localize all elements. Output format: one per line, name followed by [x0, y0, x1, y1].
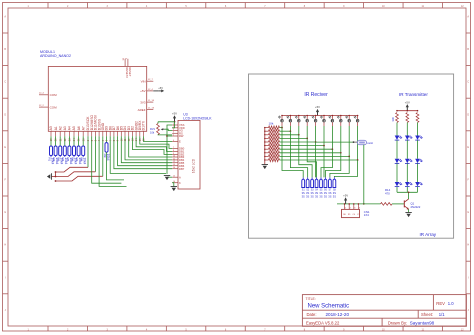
photodiode IR receiver 10 — [354, 116, 359, 127]
pin D11/MOSI bottom — [94, 115, 98, 141]
pin RS of U3 — [172, 131, 183, 135]
wire tx column 3 segment 2 — [417, 140, 419, 159]
ground below Q1 — [405, 213, 411, 218]
wire Q1 collector — [408, 192, 410, 199]
wire R14 to Q1 base — [392, 203, 404, 205]
pin D0/RX bottom — [138, 120, 142, 141]
pin DB0 of U3 — [172, 147, 185, 151]
pin D4 bottom — [123, 126, 127, 141]
resistor R5 — [66, 146, 73, 165]
wire oval to crossbar row — [316, 141, 354, 143]
node receiver junction 8 — [340, 152, 342, 154]
svg-text:7: 7 — [264, 5, 266, 8]
photodiode IR receiver 7 — [329, 116, 334, 127]
node bus dot 5 — [315, 115, 317, 117]
wire Q1 emitter to ground — [408, 209, 410, 212]
pin DB5 of U3 — [172, 161, 185, 165]
node receiver junction 4 — [306, 138, 308, 140]
wire receiver resistor left rail — [264, 128, 266, 163]
wire receiver column 10 — [357, 126, 359, 160]
wire tx column 3 segment 3 — [417, 163, 419, 182]
wire funnel 9 — [330, 156, 349, 177]
svg-text:3S: 3S — [311, 194, 314, 198]
wire receiver column 2 — [289, 126, 291, 131]
svg-text:DB7: DB7 — [179, 167, 185, 171]
part U3 body — [178, 120, 200, 189]
wire receiver row 10 — [280, 159, 358, 161]
resistor receiver pullup 6 — [265, 144, 280, 147]
svg-text:2: 2 — [67, 5, 69, 8]
pin D13/SCK bottom — [86, 116, 90, 141]
resistor receiver pullup 1 — [265, 126, 280, 129]
svg-text:10k: 10k — [269, 121, 274, 125]
svg-text:25: 25 — [78, 138, 81, 141]
svg-text:3S: 3S — [311, 191, 314, 195]
node rail dot — [264, 145, 265, 146]
svg-text:J: J — [5, 309, 7, 312]
pin A of U3 — [172, 175, 181, 179]
node CN bus junction — [363, 203, 365, 205]
IR sensor output part 6 — [324, 177, 328, 198]
photodiode IR receiver 2 — [287, 116, 292, 127]
pin COM 2 left — [39, 105, 57, 110]
pin VDD of U3 — [172, 126, 185, 130]
svg-text:3S: 3S — [328, 194, 331, 198]
node receiver junction 2 — [290, 130, 292, 132]
svg-text:IR Array: IR Array — [420, 232, 437, 237]
photodiode IR receiver 6 — [320, 116, 325, 127]
svg-text:10: 10 — [120, 138, 123, 141]
wire +5V bus transmitter — [397, 110, 418, 112]
wire tx column 2 segment 3 — [406, 163, 408, 182]
pin DB7 of U3 — [172, 167, 185, 171]
pin COM 1 left — [39, 93, 57, 98]
svg-text:RESET: RESET — [128, 67, 132, 76]
svg-text:24: 24 — [73, 138, 76, 141]
svg-text:2: 2 — [91, 139, 94, 141]
svg-text:12: 12 — [128, 138, 131, 141]
pin A3 bottom — [63, 126, 67, 141]
photodiode IR receiver 9 — [345, 116, 350, 127]
svg-text:ARDUINO_NANO2: ARDUINO_NANO2 — [40, 54, 71, 58]
wire A5 to R6 — [73, 136, 75, 146]
svg-text:A: A — [467, 16, 469, 19]
svg-text:4: 4 — [146, 5, 148, 8]
ground below LCD — [171, 187, 177, 192]
svg-text:3S: 3S — [333, 191, 336, 195]
svg-text:IR Reciver: IR Reciver — [304, 92, 328, 98]
wire tx column 2 segment 1 — [406, 123, 408, 136]
svg-text:3S: 3S — [315, 191, 318, 195]
svg-text:A: A — [179, 175, 181, 179]
wire oval down to CN1 bus — [363, 145, 365, 204]
wire A7 to R8 — [82, 136, 84, 146]
node rail dot — [264, 156, 265, 157]
svg-text:12: 12 — [461, 5, 464, 8]
title block REV — [436, 301, 454, 306]
svg-text:23: 23 — [69, 138, 72, 141]
pin K of U3 — [172, 181, 181, 185]
node rail dot — [264, 159, 265, 160]
wire D7 to LCD DB7 — [114, 136, 172, 168]
node rail dot — [264, 141, 265, 142]
wire D4 to LCD DB4 — [125, 136, 172, 160]
wire pot wiper to VO — [164, 129, 172, 130]
pin A7 bottom — [81, 126, 85, 141]
svg-text:10: 10 — [173, 155, 175, 157]
node receiver junction 5 — [315, 141, 317, 143]
wire VSS to ground rail — [167, 125, 172, 174]
wire tx column 3 segment 1 — [417, 123, 419, 136]
wire GND2 to LCD DB1 — [136, 136, 172, 151]
wire funnel 7 — [321, 149, 332, 177]
svg-text:330: 330 — [391, 117, 395, 122]
pin D6 bottom — [116, 126, 120, 141]
svg-text:REV: REV — [436, 301, 445, 306]
pin VSS of U3 — [172, 123, 184, 127]
svg-text:11: 11 — [173, 158, 175, 160]
resistor tx 1 — [396, 113, 399, 123]
pin 1 of CN1 — [344, 203, 346, 210]
wire +5V to VDD — [172, 122, 174, 128]
svg-text:A7: A7 — [81, 126, 85, 130]
resistor R14 — [381, 203, 393, 206]
svg-text:A3: A3 — [63, 126, 67, 130]
label Q1 2N2222 — [411, 201, 421, 208]
node bus dot 9 — [348, 115, 350, 117]
resistor R8 — [80, 146, 87, 165]
pin AREF right — [138, 108, 155, 112]
svg-text:C0: C0 — [353, 214, 356, 216]
svg-text:J2_7: J2_7 — [148, 79, 154, 81]
svg-text:16: 16 — [143, 138, 146, 141]
wire receiver column 7 — [331, 126, 333, 149]
wire receiver column 6 — [323, 126, 325, 146]
svg-text:3S: 3S — [319, 191, 322, 195]
resistor receiver pullup 5 — [265, 140, 280, 143]
IR sensor output part 3 — [311, 177, 315, 198]
wire receiver column 5 — [315, 126, 317, 142]
svg-text:4: 4 — [173, 132, 174, 134]
pin DB4 of U3 — [172, 158, 185, 162]
LED D7 — [415, 136, 422, 141]
pin D8 bottom — [108, 126, 112, 141]
node receiver junction 10 — [357, 159, 359, 161]
svg-text:B: B — [467, 48, 469, 51]
pin RW of U3 — [172, 134, 184, 138]
node bus dot 10 — [357, 115, 359, 117]
svg-text:R0: R0 — [343, 214, 346, 216]
pin DB6 of U3 — [172, 164, 185, 168]
pin RESET top — [126, 57, 132, 76]
resistor R3 — [57, 146, 64, 165]
pin VIN right — [141, 79, 154, 83]
svg-text:3S: 3S — [302, 194, 305, 198]
wire funnel 4 — [307, 138, 316, 177]
IR array sub-sheet box — [249, 74, 454, 238]
svg-text:A5: A5 — [72, 126, 76, 130]
svg-text:K: K — [179, 181, 181, 185]
wire +5V bus to pot — [158, 121, 175, 123]
resistor R7 — [75, 146, 82, 165]
resistor receiver pullup 9 — [265, 155, 280, 158]
node bus dot 2 — [290, 115, 292, 117]
IR sensor output part 1 — [302, 177, 306, 198]
wire receiver row 6 — [280, 145, 325, 147]
node receiver junction 1 — [281, 127, 283, 129]
svg-text:2N2222: 2N2222 — [411, 205, 421, 209]
wire tx column 2 bottom — [406, 187, 408, 193]
resistor R1 — [47, 146, 54, 165]
wire D13/SCK down — [87, 136, 89, 167]
wire receiver column 8 — [340, 126, 342, 153]
IR sensor output part 2 — [306, 177, 310, 198]
svg-text:8: 8 — [113, 139, 116, 141]
svg-text:AREF: AREF — [138, 108, 146, 112]
svg-text:3: 3 — [126, 57, 128, 59]
wire D3 to LCD DB3 — [129, 136, 173, 157]
wire receiver column 9 — [348, 126, 350, 156]
wire funnel 8 — [325, 153, 340, 178]
svg-text:A1: A1 — [54, 126, 58, 130]
svg-text:R1: R1 — [348, 214, 351, 216]
potentiometer RV1 — [150, 122, 164, 135]
svg-text:12: 12 — [173, 161, 175, 163]
node bus dot 1 — [281, 115, 283, 117]
node rail dot — [264, 152, 265, 153]
+5V power flag at +5V pin — [153, 86, 164, 93]
svg-text:G: G — [4, 211, 6, 214]
svg-text:13: 13 — [132, 138, 135, 141]
svg-text:J2_2: J2_2 — [39, 105, 45, 107]
svg-text:LCD-16X2NOSILK: LCD-16X2NOSILK — [183, 116, 212, 120]
svg-text:30: 30 — [123, 57, 125, 60]
svg-text:A4: A4 — [68, 126, 72, 130]
resistor R14 label — [385, 188, 391, 195]
svg-text:6: 6 — [225, 5, 227, 8]
svg-text:1X4: 1X4 — [364, 213, 369, 217]
wire CN1 top bus — [337, 203, 381, 205]
pin E of U3 — [172, 140, 181, 144]
resistor receiver pullup 3 — [265, 133, 280, 136]
LED D1 — [395, 136, 402, 141]
svg-text:Date:: Date: — [307, 312, 317, 317]
wire K to ground — [172, 183, 174, 187]
svg-text:10: 10 — [382, 5, 385, 8]
node receiver junction 9 — [348, 156, 350, 158]
pin GND bottom — [101, 122, 105, 141]
node junction dots on ground bundle — [55, 171, 57, 182]
wire receiver row 4 — [280, 137, 308, 139]
svg-text:5: 5 — [102, 139, 105, 141]
svg-text:6: 6 — [106, 139, 109, 141]
svg-text:20: 20 — [55, 138, 58, 141]
svg-text:H: H — [4, 244, 6, 247]
pin A4 bottom — [68, 126, 72, 141]
part U3 LCD-16X2NOSILK label — [183, 112, 212, 120]
ground (left bundle) — [47, 173, 56, 179]
svg-text:D: D — [467, 113, 469, 116]
wire D6 to LCD DB6 — [118, 136, 173, 165]
svg-text:3: 3 — [106, 5, 108, 8]
module MODUL1 body — [48, 66, 146, 131]
svg-text:J1_14: J1_14 — [148, 100, 155, 102]
port output (stadium flag) — [354, 140, 373, 145]
photodiode IR receiver 5 — [312, 116, 317, 127]
svg-text:13: 13 — [173, 164, 175, 166]
svg-text:10k4: 10k4 — [83, 157, 87, 164]
svg-text:14: 14 — [135, 138, 138, 141]
wire D8 to LCD — [110, 136, 166, 173]
wire receiver row 2 — [280, 130, 291, 132]
LED D6 — [405, 182, 412, 187]
svg-text:+5V: +5V — [158, 86, 163, 90]
node receiver junction 3 — [298, 134, 300, 136]
svg-text:A2: A2 — [58, 126, 62, 130]
svg-text:E: E — [179, 140, 181, 144]
pin GND2 bottom — [134, 121, 138, 141]
svg-text:New Schematic: New Schematic — [308, 304, 350, 310]
wire D9 through R9 — [106, 136, 108, 142]
wire funnel 10 — [334, 160, 357, 177]
svg-text:TITLE:: TITLE: — [306, 297, 316, 301]
wire tx column 2 segment 2 — [406, 140, 408, 159]
svg-text:+5V: +5V — [343, 194, 348, 198]
svg-text:C: C — [4, 81, 6, 84]
title block Date row — [307, 312, 350, 317]
svg-text:G: G — [467, 211, 469, 214]
svg-text:5: 5 — [173, 134, 174, 136]
svg-text:7: 7 — [109, 139, 112, 141]
pin 2 of CN1 — [348, 203, 350, 210]
node bus dot 4 — [306, 115, 308, 117]
svg-text:3S: 3S — [333, 194, 336, 198]
wire receiver row 9 — [280, 155, 350, 157]
wire GND pin down — [102, 136, 104, 176]
wire gnd bundle B — [56, 172, 96, 177]
photodiode IR receiver 8 — [337, 116, 342, 127]
svg-text:3S: 3S — [319, 194, 322, 198]
wire A0 to R1 — [50, 136, 52, 146]
svg-text:2018-12-20: 2018-12-20 — [326, 312, 350, 317]
svg-text:470: 470 — [385, 192, 390, 196]
+5V power flag above LCD — [172, 112, 177, 123]
svg-text:11: 11 — [124, 138, 127, 141]
wire funnel 6 — [323, 146, 325, 178]
node rail dot — [264, 131, 265, 132]
pin DB3 of U3 — [172, 155, 185, 159]
wire pot bottom to RS row — [158, 134, 172, 136]
pin D7 bottom — [112, 126, 116, 141]
resistor tx 3 — [416, 113, 419, 123]
svg-text:+5V: +5V — [140, 89, 145, 93]
svg-text:J2_4: J2_4 — [148, 89, 154, 91]
svg-text:16x2 LCD: 16x2 LCD — [192, 158, 196, 173]
wire D11/MOSI down — [94, 136, 96, 172]
LED D9 — [415, 182, 422, 187]
svg-text:I: I — [5, 276, 6, 279]
svg-text:D: D — [4, 113, 6, 116]
resistor R9 — [103, 143, 110, 161]
svg-text:D1/TX: D1/TX — [142, 120, 146, 130]
pin +5V right — [140, 89, 153, 93]
wire LED merge bus — [397, 191, 418, 193]
pin D1/TX bottom — [142, 120, 146, 141]
wire receiver column 4 — [306, 126, 308, 138]
resistor receiver pullup 2 — [265, 130, 280, 133]
resistor tx 2 — [406, 113, 409, 123]
svg-text:+5V: +5V — [315, 105, 320, 109]
svg-text:15: 15 — [173, 176, 175, 178]
wire tx column 1 segment 2 — [396, 140, 398, 159]
wire funnel 2 — [290, 131, 307, 177]
node tx bus dot 2 — [407, 110, 409, 112]
wire D5 to LCD DB5 — [121, 136, 172, 162]
svg-text:15: 15 — [139, 138, 142, 141]
svg-text:26: 26 — [82, 138, 85, 141]
+5V power flag transmitter — [405, 100, 410, 110]
wire gnd bundle A — [56, 167, 89, 176]
svg-text:J1_13: J1_13 — [148, 108, 155, 110]
node rail dot — [264, 134, 265, 135]
node receiver junction 7 — [332, 148, 334, 150]
svg-text:3S: 3S — [302, 191, 305, 195]
title block Sheet row — [421, 312, 445, 317]
node bus dot 7 — [332, 115, 334, 117]
svg-text:3: 3 — [173, 129, 174, 131]
svg-text:I: I — [468, 276, 469, 279]
ground under LCD left — [164, 176, 170, 181]
svg-text:3: 3 — [95, 139, 98, 141]
svg-text:3S: 3S — [324, 191, 327, 195]
svg-text:F: F — [467, 179, 469, 182]
wire A pin to ground rail — [167, 176, 172, 178]
wire receiver row 8 — [280, 152, 341, 154]
pin A1 bottom — [54, 126, 58, 141]
wire receiver column 1 — [281, 126, 283, 128]
svg-text:21: 21 — [59, 138, 62, 141]
svg-text:A0: A0 — [49, 126, 53, 130]
wire receiver row 1 — [280, 127, 283, 129]
title block outline — [302, 295, 466, 327]
+5V power flag at CN1 — [343, 194, 348, 204]
svg-text:Sheet:: Sheet: — [421, 312, 433, 317]
pin D5 bottom — [120, 126, 124, 141]
svg-text:outH: outH — [367, 141, 373, 145]
svg-text:14: 14 — [173, 167, 175, 169]
module MODUL1 ARDUINO_NANO2 label — [40, 50, 71, 58]
svg-text:5: 5 — [185, 5, 187, 8]
pin D12/MISO bottom — [90, 114, 94, 141]
svg-text:3S: 3S — [315, 194, 318, 198]
pin VO of U3 — [172, 129, 183, 133]
svg-text:1: 1 — [173, 123, 174, 125]
node bus dot 8 — [340, 115, 342, 117]
pin A6 bottom — [77, 126, 81, 141]
resistor receiver pullup 8 — [265, 151, 280, 154]
wire A4 to R5 — [68, 136, 70, 146]
svg-text:3V3: 3V3 — [140, 100, 146, 104]
wire funnel 3 — [299, 135, 312, 178]
svg-text:3S: 3S — [306, 191, 309, 195]
IR sensor output part 8 — [333, 177, 337, 198]
wire D1/TX to LCD E — [144, 136, 173, 141]
svg-text:J: J — [468, 309, 470, 312]
wire A1 to R2 — [55, 136, 57, 146]
LED D5 — [405, 159, 412, 164]
LED D4 — [405, 136, 412, 141]
node merge junction — [408, 191, 410, 193]
